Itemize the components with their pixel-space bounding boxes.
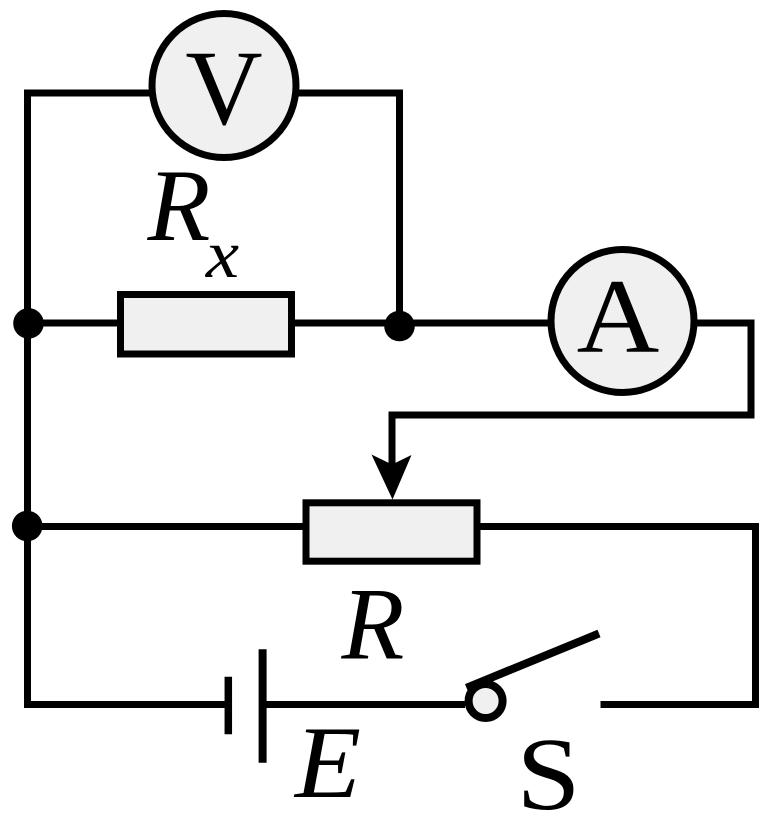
switch S pivot circle	[469, 684, 503, 718]
svg-text:x: x	[205, 217, 240, 292]
node B: right junction of Rx line	[384, 311, 415, 342]
battery E negative short plate	[225, 677, 233, 735]
wire: battery right to switch	[267, 701, 466, 708]
svg-text:R: R	[147, 149, 211, 263]
wire: outer loop (voltmeter branch right drop, top wire, left rail, bottom-left run)	[28, 93, 400, 705]
svg-text:V: V	[185, 30, 262, 148]
wire: ammeter right down to slider arrow	[392, 323, 751, 467]
svg-text:R: R	[341, 568, 405, 682]
rheostat R body	[306, 503, 477, 561]
resistor Rx body	[121, 295, 292, 355]
node C: left junction of rheostat line	[12, 511, 43, 542]
wire: horizontal Rx/ammeter line	[28, 320, 623, 327]
node A: left junction of Rx line	[13, 308, 44, 339]
ammeter U-A circle	[551, 250, 694, 393]
wire: rheostat left horizontal	[28, 523, 311, 530]
svg-text:S: S	[516, 716, 580, 820]
wire: rheostat right to bottom-right corner and switch	[477, 527, 756, 705]
rheostat slider arrowhead	[372, 455, 412, 500]
voltmeter U-V circle	[152, 14, 296, 158]
svg-text:A: A	[577, 257, 660, 374]
svg-text:E: E	[293, 705, 361, 819]
battery E positive long plate	[259, 649, 267, 763]
switch S lever	[467, 634, 600, 688]
